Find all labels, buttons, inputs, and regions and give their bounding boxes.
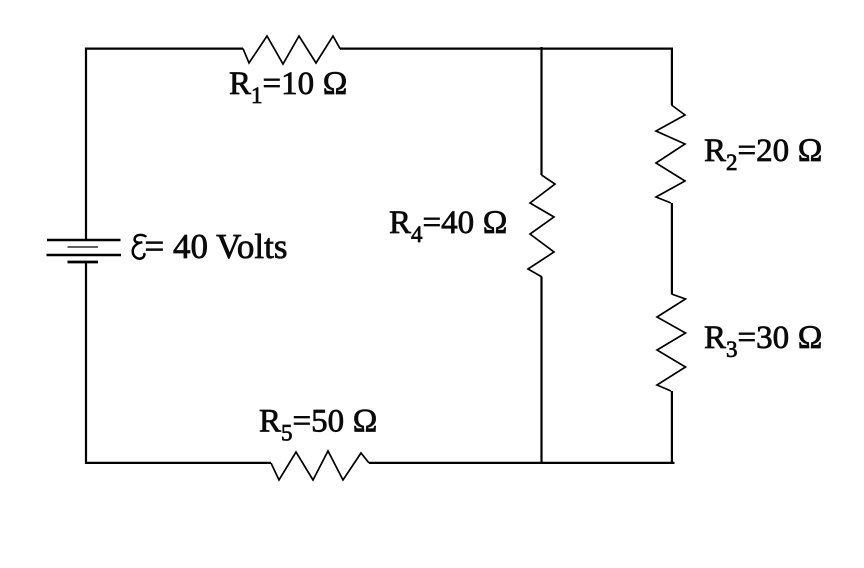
svg-text:= 40 Volts: = 40 Volts — [145, 227, 288, 266]
svg-text:R2=20 Ω: R2=20 Ω — [704, 133, 823, 175]
battery U1 plate long lower — [47, 254, 122, 257]
label EMF script-E symbol — [133, 235, 146, 259]
wire bottom-left horizontal — [85, 462, 271, 464]
battery U1 plate thin middle — [68, 246, 99, 248]
resistor R1 — [243, 36, 340, 64]
wire middle branch upper vertical — [540, 47, 542, 175]
wire left upper vertical — [85, 48, 87, 241]
svg-text:R1=10 Ω: R1=10 Ω — [229, 66, 348, 108]
wire top-right horizontal — [340, 47, 673, 49]
wire bottom-right horizontal — [369, 462, 675, 464]
svg-text:R5=50 Ω: R5=50 Ω — [259, 404, 378, 446]
svg-text:R4=40 Ω: R4=40 Ω — [389, 205, 508, 247]
svg-text:R3=30 Ω: R3=30 Ω — [704, 320, 823, 362]
wire left lower vertical — [85, 262, 87, 464]
battery U1 plate long top — [47, 239, 121, 242]
battery U1 plate short bottom — [68, 261, 99, 264]
wire right branch middle vertical — [671, 203, 673, 294]
resistor R2 — [656, 105, 685, 203]
wire top-left horizontal — [85, 47, 243, 49]
wire right branch lower vertical — [671, 391, 673, 464]
resistor R3 — [657, 294, 686, 391]
resistor R4 — [528, 175, 555, 277]
wire right branch upper vertical — [671, 48, 673, 106]
wire middle branch lower vertical — [540, 277, 542, 464]
resistor R5 — [271, 451, 369, 480]
